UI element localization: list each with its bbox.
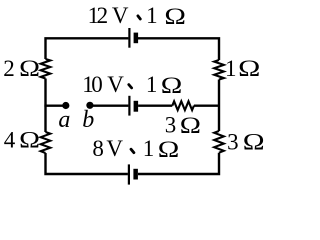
svg-text:Ω: Ω <box>19 56 40 82</box>
svg-text:2: 2 <box>3 56 15 81</box>
resistor 2 Ohm (left upper) zigzag <box>41 59 51 79</box>
node a terminal dot <box>62 102 69 109</box>
wire: node b to battery E2 <box>90 104 128 106</box>
svg-text:1: 1 <box>143 136 155 161</box>
battery E2 (10 V) short thick plate <box>134 101 139 112</box>
svg-text:3: 3 <box>165 112 177 137</box>
wire: battery E2 to middle 3 Ohm resistor <box>138 104 172 106</box>
battery E2 (10 V) long thin plate <box>128 96 130 116</box>
svg-text:b: b <box>82 107 94 133</box>
svg-text:1: 1 <box>225 56 237 81</box>
wire: right rail bottom segment + bottom rail right segment (bottom-right corner) <box>138 153 219 174</box>
node b terminal dot <box>86 102 93 109</box>
value label: ideographic comma after 12 V <box>138 16 140 19</box>
battery E1 (12 V) short thick plate <box>134 33 139 44</box>
resistor 1 Ohm (right upper) zigzag <box>214 60 224 80</box>
battery E3 (8 V) short thick plate <box>133 169 138 180</box>
battery E1 (12 V) long thin plate <box>128 28 130 48</box>
wire: bottom rail left segment + left rail bottom segment (bottom-left corner) <box>46 153 128 174</box>
wire: left rail between 4 Ohm and 2 Ohm resistors (node a branch point) <box>44 79 46 133</box>
svg-text:1: 1 <box>146 3 158 28</box>
value label: ideographic comma after 8 V <box>131 149 134 153</box>
svg-text:V: V <box>112 3 129 28</box>
svg-text:Ω: Ω <box>164 4 186 29</box>
svg-text:Ω: Ω <box>243 129 265 155</box>
wire: middle 3 Ohm resistor to right rail <box>194 104 220 106</box>
svg-text:8: 8 <box>92 136 104 161</box>
svg-text:Ω: Ω <box>161 73 183 98</box>
svg-text:V: V <box>106 136 123 161</box>
resistor 4 Ohm (left lower) zigzag <box>41 132 51 153</box>
resistor 3 Ohm (right lower) zigzag <box>214 131 224 153</box>
svg-text:12: 12 <box>88 3 108 28</box>
wire: stub from left rail to node a <box>44 104 64 106</box>
wire: right rail between 1 Ohm and 3 Ohm resistors (middle branch junction) <box>218 80 220 132</box>
svg-text:Ω: Ω <box>180 113 201 139</box>
svg-text:Ω: Ω <box>158 137 180 162</box>
svg-text:3: 3 <box>227 130 239 155</box>
svg-text:Ω: Ω <box>238 56 260 82</box>
svg-text:a: a <box>58 107 70 133</box>
svg-text:4: 4 <box>4 128 16 153</box>
svg-text:Ω: Ω <box>19 127 40 153</box>
wire: left rail top segment + top rail left segment (top-left corner) <box>46 38 129 59</box>
battery E3 (8 V) long thin plate <box>128 164 130 184</box>
wire: top rail right segment + right rail top segment (top-right corner) <box>138 38 219 60</box>
svg-text:1: 1 <box>146 72 158 97</box>
svg-text:10: 10 <box>82 72 102 97</box>
svg-text:V: V <box>107 72 124 97</box>
value label: ideographic comma after 10 V <box>129 85 132 88</box>
resistor 3 Ohm (middle branch) zigzag <box>172 101 194 110</box>
